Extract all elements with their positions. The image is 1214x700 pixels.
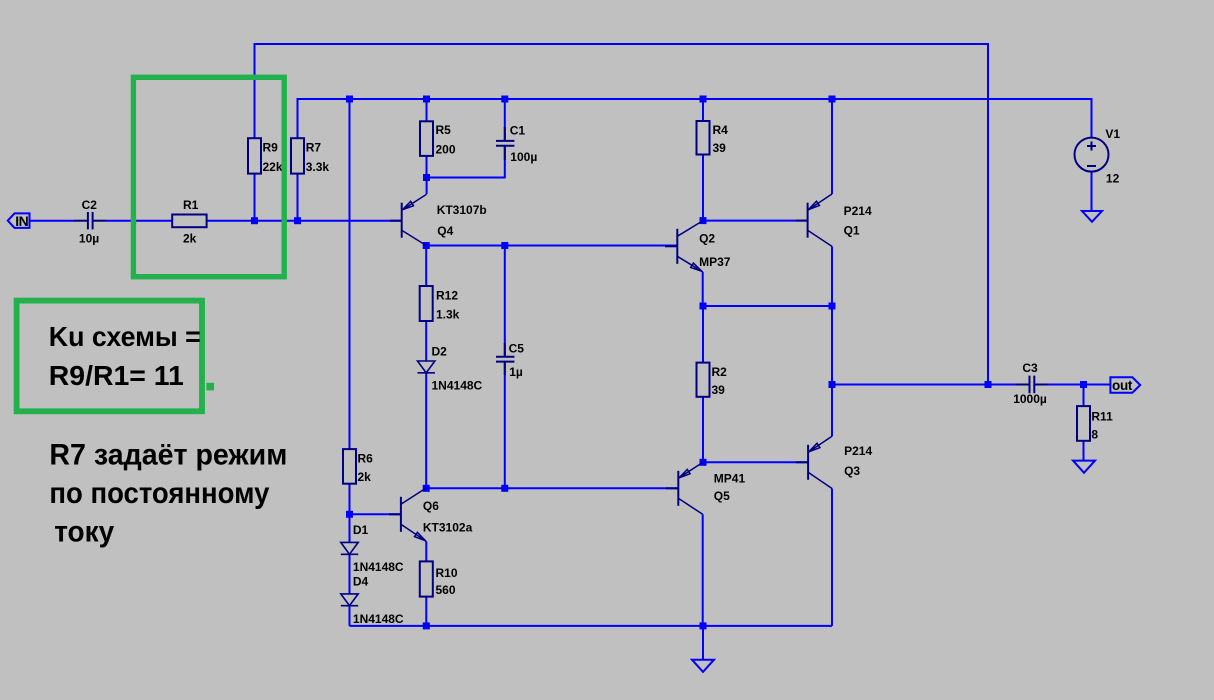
- wire Q3 emitter up to out node: [831, 385, 833, 437]
- wire D4 to bottom rail: [349, 606, 351, 626]
- wire rail to R4 top: [702, 99, 704, 121]
- svg-text:MP41: MP41: [714, 471, 746, 485]
- node C5 bottom: [501, 485, 508, 492]
- wire C2 to R1: [107, 220, 173, 222]
- svg-text:1000µ: 1000µ: [1013, 392, 1047, 406]
- svg-text:току: току: [54, 515, 114, 548]
- svg-text:Q2: Q2: [699, 231, 715, 245]
- svg-text:200: 200: [436, 142, 456, 156]
- node rail-C1: [501, 96, 508, 103]
- resistor R12: [420, 286, 433, 321]
- node rail-R4: [700, 96, 707, 103]
- svg-text:D4: D4: [353, 575, 369, 589]
- wire C5 upper lead: [504, 246, 506, 356]
- wire C1 top lead: [504, 99, 506, 140]
- svg-text:D2: D2: [432, 345, 448, 359]
- wire node to R2 top: [702, 306, 704, 363]
- node R6-D1-Q6base: [346, 511, 353, 518]
- node out-feedback: [985, 381, 992, 388]
- resistor R9: [248, 138, 261, 173]
- wire D2 to lower node: [425, 373, 427, 489]
- port out: [1110, 377, 1140, 393]
- node out-R11: [1080, 381, 1087, 388]
- capacitor C3: [1016, 376, 1048, 394]
- capacitor C2: [74, 212, 107, 229]
- node Q1collector-junction: [829, 303, 836, 310]
- svg-text:3.3k: 3.3k: [306, 160, 330, 174]
- wire R6 bottom to D1 node: [349, 484, 351, 543]
- wire R10 bottom to bottom rail: [425, 597, 427, 626]
- ground below R11: [1073, 461, 1095, 473]
- svg-text:out: out: [1112, 378, 1133, 393]
- wire R5 bottom lead: [426, 156, 428, 178]
- svg-text:C3: C3: [1022, 361, 1038, 375]
- svg-text:Ku схемы =: Ku схемы =: [49, 321, 201, 352]
- wire rail to R6 top: [349, 99, 351, 449]
- transistor Q4 KT3107b PNP: [390, 194, 427, 245]
- transistor Q6 KT3102a NPN: [389, 488, 426, 541]
- wire D1 node to Q6 base: [350, 513, 401, 515]
- wire positive supply rail: [298, 99, 1092, 138]
- svg-text:R1: R1: [183, 198, 199, 212]
- transistor Q1 P214 PNP: [796, 194, 832, 246]
- wire C3 to out port: [1047, 384, 1110, 386]
- resistor R6: [343, 449, 356, 484]
- wire R2 bottom to Q5 emitter node: [702, 397, 704, 463]
- ground below bottom rail: [692, 660, 714, 672]
- voltage source V1: [1075, 138, 1109, 172]
- resistor R1: [172, 215, 206, 228]
- wire node to node at Q1 collector: [703, 305, 832, 307]
- svg-text:KT3107b: KT3107b: [437, 203, 487, 217]
- svg-text:1N4148C: 1N4148C: [353, 612, 404, 626]
- svg-text:R2: R2: [712, 365, 728, 379]
- wire D2 node to Q5 base: [426, 487, 678, 489]
- green highlight box around gain formula: [17, 301, 202, 412]
- svg-text:C5: C5: [509, 341, 525, 355]
- port IN: [8, 213, 30, 229]
- wire top feedback from R9 to right side: [255, 44, 989, 385]
- svg-text:1.3k: 1.3k: [436, 307, 460, 321]
- wire ground stub below bottom rail: [702, 626, 704, 660]
- svg-text:12: 12: [1106, 171, 1120, 185]
- wire bottom ground rail: [350, 625, 833, 627]
- svg-text:Q1: Q1: [844, 223, 860, 237]
- svg-text:1N4148C: 1N4148C: [432, 379, 483, 393]
- svg-text:C1: C1: [510, 123, 526, 137]
- node R9-input: [251, 217, 258, 224]
- wire C1 bottom to Q4 emitter node: [427, 147, 505, 178]
- wire out line from node to C3: [832, 384, 1016, 386]
- wire Q1 emitter to rail: [831, 99, 833, 194]
- svg-text:39: 39: [712, 383, 726, 397]
- svg-text:1µ: 1µ: [509, 365, 523, 379]
- wire R12 bottom to D2: [425, 321, 427, 361]
- svg-text:560: 560: [436, 583, 456, 597]
- svg-text:по постоянному: по постоянному: [49, 477, 269, 510]
- svg-text:R6: R6: [358, 452, 374, 466]
- svg-text:R12: R12: [436, 288, 458, 302]
- wire D1 to D4: [349, 554, 351, 594]
- svg-text:R11: R11: [1091, 409, 1113, 423]
- wire R11 bottom to ground: [1083, 441, 1085, 461]
- svg-text:Q3: Q3: [844, 464, 860, 478]
- svg-text:R7: R7: [306, 141, 322, 155]
- ground below V1: [1082, 211, 1102, 222]
- svg-text:P214: P214: [844, 444, 872, 458]
- node D2-Q6collector: [423, 485, 430, 492]
- wire Q4 emitter vertical: [426, 178, 428, 195]
- wire R7 bottom to input node: [297, 174, 299, 221]
- node ground-bottomrail: [700, 622, 707, 629]
- node R5-C1-Q4emitter: [423, 174, 430, 181]
- wire Q6 emitter to R10 top: [425, 541, 427, 561]
- svg-text:D1: D1: [353, 523, 369, 537]
- node R7-input: [294, 217, 301, 224]
- resistor R7: [291, 138, 304, 173]
- wire Q1 collector down to out node: [831, 246, 833, 384]
- diode D1: [341, 542, 358, 554]
- wire R9 bottom to input node: [254, 174, 256, 221]
- transistor Q5 MP41 PNP: [666, 462, 703, 514]
- svg-text:Q5: Q5: [714, 489, 730, 503]
- wire Q5 emitter node to Q3 base: [703, 461, 808, 463]
- svg-text:P214: P214: [844, 204, 872, 218]
- wire Q2 emitter down to node: [702, 272, 704, 306]
- wire C5 lower lead: [504, 361, 506, 488]
- svg-text:10µ: 10µ: [79, 231, 99, 245]
- svg-text:1N4148C: 1N4148C: [353, 560, 404, 574]
- node rail-Q1: [829, 96, 836, 103]
- node rail-R6: [346, 96, 353, 103]
- node R10-bottomrail: [423, 622, 430, 629]
- node out-Q1Q3: [829, 381, 836, 388]
- svg-text:MP37: MP37: [699, 255, 731, 269]
- svg-text:R9/R1= 11: R9/R1= 11: [49, 360, 184, 391]
- node C5 top: [501, 242, 508, 249]
- resistor R4: [697, 121, 710, 155]
- svg-text:2k: 2k: [183, 231, 197, 245]
- svg-text:C2: C2: [82, 198, 98, 212]
- svg-text:100µ: 100µ: [510, 150, 537, 164]
- node R2-Q5emitter: [700, 459, 707, 466]
- resistor R2: [697, 363, 710, 397]
- svg-text:R10: R10: [436, 566, 458, 580]
- resistor R10: [420, 561, 433, 596]
- node Q4collector: [423, 242, 430, 249]
- green highlight box around R1 R9 R7: [133, 77, 284, 276]
- svg-text:R5: R5: [436, 123, 452, 137]
- green small square handle: [206, 383, 214, 391]
- wire Q2 collector node to Q1 base: [703, 220, 808, 222]
- svg-text:R9: R9: [263, 141, 279, 155]
- resistor R5: [420, 121, 433, 156]
- svg-text:2k: 2k: [358, 470, 372, 484]
- wire R1 to Q4 base: [207, 220, 402, 222]
- diode D2: [418, 361, 435, 373]
- diode D4: [341, 594, 358, 606]
- svg-text:R4: R4: [713, 123, 729, 137]
- wire node to R12 top: [425, 246, 427, 287]
- svg-text:22k: 22k: [263, 160, 283, 174]
- node rail-R5: [423, 96, 430, 103]
- wire R4 bottom to Q2 collector node: [702, 155, 704, 221]
- svg-text:39: 39: [713, 141, 727, 155]
- transistor Q3 P214 PNP: [796, 436, 832, 488]
- svg-text:R7 задаёт режим: R7 задаёт режим: [49, 439, 287, 472]
- wire IN port to C2: [30, 220, 75, 222]
- node R4-Q2collector: [700, 217, 707, 224]
- capacitor C5: [496, 343, 514, 375]
- svg-text:IN: IN: [15, 213, 28, 229]
- wire V1 bottom to ground: [1091, 172, 1093, 211]
- transistor Q2 MP37 NPN: [665, 221, 703, 272]
- wire Q5 collector down to bottom rail: [702, 514, 704, 626]
- resistor R11: [1077, 406, 1090, 441]
- wire out node to R11 top: [1083, 385, 1085, 407]
- wire Q3 collector down to bottom rail: [831, 489, 833, 626]
- svg-text:KT3102a: KT3102a: [423, 520, 473, 534]
- svg-text:Q6: Q6: [423, 499, 439, 513]
- node Q2emitter-junction: [700, 303, 707, 310]
- capacitor C1: [496, 127, 514, 160]
- svg-text:V1: V1: [1105, 127, 1120, 141]
- wire Q4 collector node to Q2 base: [426, 245, 677, 247]
- svg-text:8: 8: [1091, 428, 1098, 442]
- svg-text:Q4: Q4: [437, 224, 453, 238]
- wire R5 top lead: [426, 99, 428, 121]
